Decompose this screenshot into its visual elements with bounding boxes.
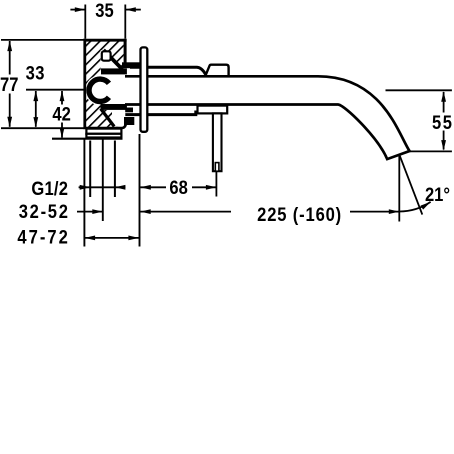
handle cap on spout top <box>205 65 228 77</box>
svg-text:42: 42 <box>52 103 70 125</box>
extension line left <box>84 5 86 39</box>
vertical reference line from spout tip <box>398 156 400 222</box>
right dim line <box>350 211 399 213</box>
white slot bottom right <box>112 109 127 127</box>
down arrow <box>7 117 12 128</box>
angle 21 degrees <box>398 156 450 222</box>
extension line bottom <box>408 150 452 152</box>
up arrow <box>441 91 446 102</box>
dimension 77 <box>0 40 84 128</box>
dimension 35 <box>70 0 140 38</box>
right dim line <box>192 186 216 188</box>
up arrow <box>60 91 65 102</box>
body outline top edge <box>84 39 127 42</box>
dim line <box>443 92 445 113</box>
extension line top <box>1 39 84 41</box>
body outline left edge <box>83 39 86 129</box>
valve seat wedge diagonal <box>104 50 123 69</box>
extension line body left face <box>83 140 85 247</box>
white socket chamber <box>101 70 127 110</box>
down arrow <box>441 140 446 151</box>
right arrow <box>128 236 139 241</box>
spout tube outline <box>125 76 410 159</box>
right arrow <box>115 185 126 190</box>
dim line <box>79 186 126 188</box>
white cavity under wedge <box>101 50 123 70</box>
arc arrow <box>421 202 431 210</box>
right arrow <box>125 9 141 11</box>
svg-text:68: 68 <box>169 177 187 199</box>
retaining screw (rounded square) <box>102 51 111 60</box>
dimension 68 <box>140 172 216 199</box>
sleeve cone upper piece in wall gap <box>122 62 140 68</box>
body outline bottom edge with rounded right corner <box>84 123 127 129</box>
left dim line <box>140 211 231 213</box>
dimension 47-72 <box>17 226 139 248</box>
dimension 32-52 <box>19 201 103 223</box>
dim line <box>9 41 11 75</box>
extension line top <box>386 89 452 91</box>
lower-left wedge diagonal <box>101 109 115 127</box>
down arrow <box>33 117 38 128</box>
union nut piece in wall gap <box>124 117 134 125</box>
dimension G1/2 <box>31 178 125 200</box>
extension line right <box>124 5 126 39</box>
center axis line <box>26 89 84 91</box>
up arrow <box>7 41 12 52</box>
cartridge dome C-ring <box>89 79 109 101</box>
down arrow <box>60 128 65 139</box>
left arrow <box>80 185 91 190</box>
svg-text:32-52: 32-52 <box>19 201 70 223</box>
dim line <box>77 211 103 213</box>
sleeve bottom line <box>125 111 196 115</box>
dim line <box>61 91 63 105</box>
dimension 42 <box>52 91 70 139</box>
svg-text:21°: 21° <box>425 184 450 206</box>
angle arc <box>398 202 430 212</box>
left dim line <box>140 186 166 188</box>
lower step piece <box>125 108 133 113</box>
svg-text:47-72: 47-72 <box>17 226 70 248</box>
sleeve top line with ramp <box>130 67 206 74</box>
extension line bottom <box>1 127 84 129</box>
body outline right edge <box>124 39 127 63</box>
extension line pipe axis <box>102 140 104 222</box>
svg-text:35: 35 <box>95 0 113 21</box>
lever pin <box>213 113 222 171</box>
left arrow <box>70 9 85 11</box>
dim line <box>85 237 139 239</box>
socket upper wall (black band) <box>101 68 127 74</box>
collar below spout <box>198 106 228 114</box>
dimension 33 <box>26 62 84 127</box>
up arrow <box>33 91 38 102</box>
white cavity around cartridge dome <box>85 75 115 105</box>
socket lower wall (black band) <box>101 104 127 110</box>
svg-text:77: 77 <box>0 74 18 96</box>
left arrow <box>140 185 151 190</box>
dimension 55 <box>386 90 454 151</box>
extension line pin <box>215 172 217 197</box>
dimension 225 (-160) <box>140 204 399 226</box>
left arrow <box>140 209 151 214</box>
svg-text:55: 55 <box>432 112 454 134</box>
wall flange (rosette) <box>141 47 148 131</box>
right arrow at pipe axis <box>92 209 103 214</box>
slanted flow line <box>400 156 423 215</box>
svg-text:G1/2: G1/2 <box>31 178 68 200</box>
extension line flange face <box>139 134 141 247</box>
right arrow <box>206 185 217 190</box>
mounting foot plate <box>52 129 123 139</box>
svg-text:33: 33 <box>26 62 45 84</box>
wall bracket body: hatched cross-section <box>85 41 127 127</box>
right arrow <box>389 209 400 214</box>
left arrow <box>85 236 96 241</box>
lever pin notch <box>215 163 219 172</box>
supply pipe outer wall left <box>89 141 91 198</box>
dim line <box>35 91 37 127</box>
supply pipe outer wall right <box>114 141 116 198</box>
svg-text:225 (-160): 225 (-160) <box>257 204 342 226</box>
